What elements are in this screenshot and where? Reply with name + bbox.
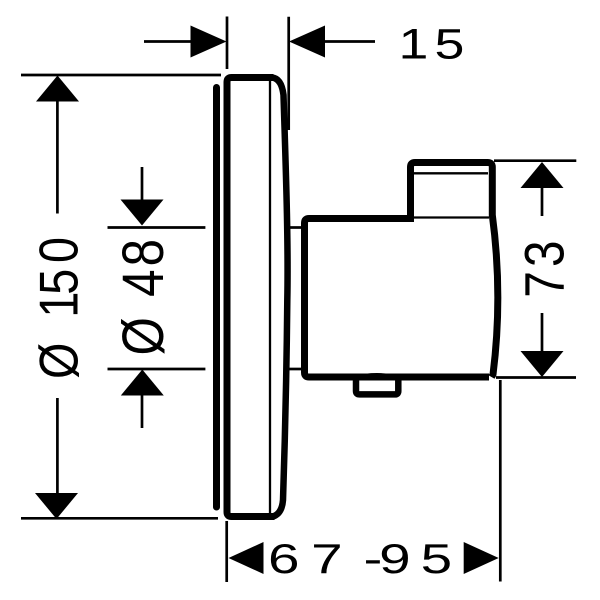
svg-text:Ø150: Ø150	[28, 237, 89, 379]
svg-text:Ø48: Ø48	[111, 239, 176, 356]
